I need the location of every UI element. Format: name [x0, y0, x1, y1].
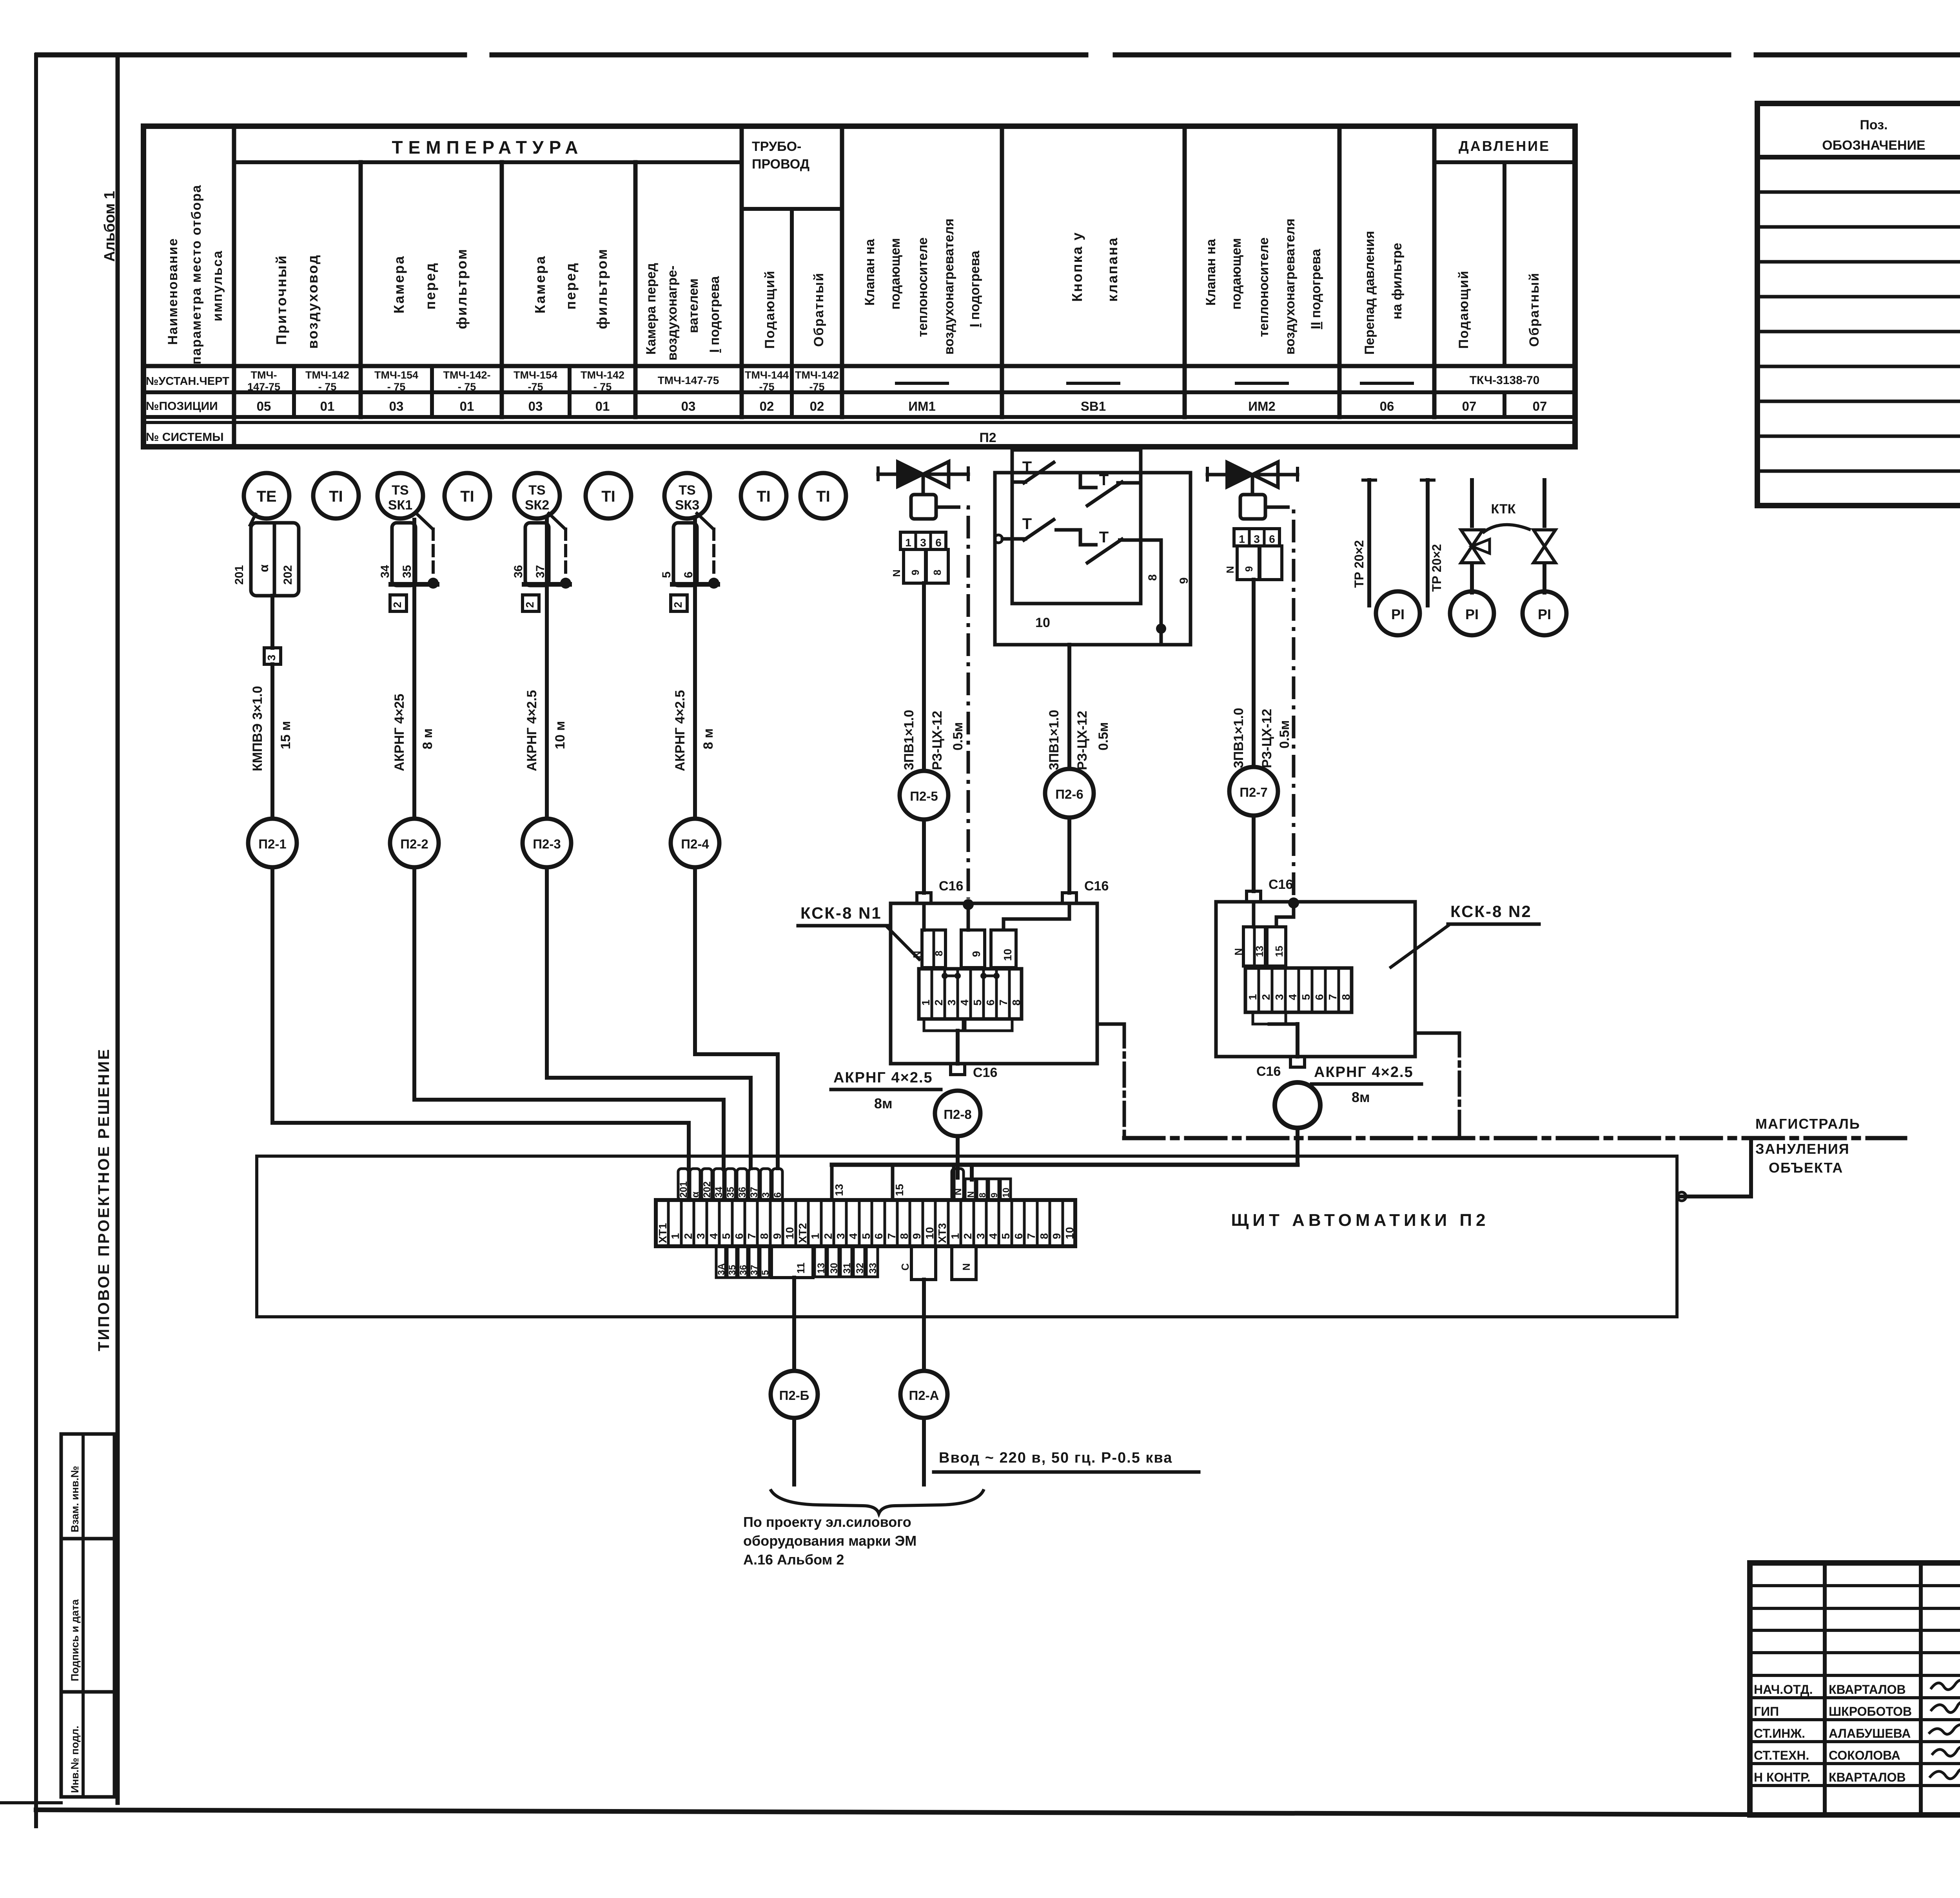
svg-text:3А: 3А: [716, 1263, 727, 1275]
measurement table column lines: [232, 126, 236, 447]
panel lower tag N: [952, 1246, 976, 1280]
junction box КСК-8 N2: [1216, 902, 1415, 1057]
valve pipe line: [1207, 473, 1298, 477]
svg-text:Клапан на: Клапан на: [862, 239, 877, 306]
svg-text:КМПВЭ 3×1.0: КМПВЭ 3×1.0: [250, 686, 265, 771]
svg-text:ТИПОВОЕ ПРОЕКТНОЕ РЕШЕНИЕ: ТИПОВОЕ ПРОЕКТНОЕ РЕШЕНИЕ: [95, 1048, 113, 1351]
svg-text:оборудования марки ЭМ: оборудования марки ЭМ: [743, 1533, 916, 1549]
svg-text:202: 202: [281, 565, 294, 585]
svg-text:ОБОЗНАЧЕНИЕ: ОБОЗНАЧЕНИЕ: [1822, 138, 1925, 153]
SB1 contact T2: [1054, 473, 1098, 488]
svg-text:Клапан на: Клапан на: [1203, 239, 1218, 306]
svg-text:По проекту эл.силового: По проекту эл.силового: [743, 1514, 911, 1530]
svg-text:3: 3: [1273, 994, 1285, 1000]
svg-text:9: 9: [1178, 577, 1191, 584]
П2-3 connection box: [525, 523, 549, 586]
КСК N2 output wire: [1296, 1024, 1299, 1057]
circle П2-Б: [771, 1371, 818, 1418]
svg-text:35: 35: [401, 565, 414, 578]
svg-text:НАЧ.ОТД.: НАЧ.ОТД.: [1754, 1682, 1813, 1697]
KTK valve left: [1461, 530, 1483, 546]
title block outer frame: [1750, 1563, 1960, 1815]
КСК-8 N1 leader line: [887, 926, 919, 959]
КСК N1 internal wires: [922, 903, 926, 930]
КСК N1 output wire: [956, 1031, 960, 1064]
left inner frame line: [116, 59, 120, 1803]
svg-text:П2-А: П2-А: [909, 1388, 939, 1403]
panel bus stub to N tag: [970, 1165, 974, 1180]
TE box lead: [250, 514, 256, 525]
svg-text:202: 202: [702, 1181, 713, 1198]
wire to П2-А: [922, 1280, 926, 1371]
wire П2-5 upper: [922, 583, 926, 771]
svg-text:36: 36: [738, 1265, 749, 1275]
svg-text:SК3: SК3: [675, 498, 699, 513]
svg-text:А.16 Альбом 2: А.16 Альбом 2: [743, 1552, 844, 1568]
КСК-8 N2 leader line: [1391, 926, 1448, 967]
svg-text:2: 2: [672, 602, 684, 608]
svg-text:2: 2: [822, 1233, 834, 1239]
terminal block 136 (ИМ1): [900, 532, 946, 549]
wire П2-6 lower: [1067, 818, 1071, 893]
svg-text:ТМЧ-147-75: ТМЧ-147-75: [658, 374, 719, 386]
capillary dashed line: [564, 529, 567, 572]
valve ИМ2 actuator box: [1240, 495, 1265, 519]
svg-text:АКРНГ 4×25: АКРНГ 4×25: [392, 694, 407, 771]
svg-text:С16: С16: [939, 879, 963, 894]
svg-text:-75: -75: [759, 381, 774, 393]
button box SB1 outer rect: [995, 473, 1191, 645]
svg-text:9: 9: [970, 951, 982, 957]
svg-text:Т: Т: [1099, 471, 1109, 489]
capillary dashed line: [432, 529, 435, 572]
svg-text:Наименование: Наименование: [165, 238, 180, 345]
svg-text:7: 7: [997, 999, 1009, 1006]
КСК N1 terminal strip: [919, 969, 1022, 1019]
svg-text:ТМЧ-142: ТМЧ-142: [581, 369, 624, 381]
wire П2-6 upper: [1067, 645, 1071, 769]
svg-text:SК1: SК1: [388, 498, 412, 513]
svg-text:Подающий: Подающий: [1456, 270, 1471, 349]
terminal block 136 (ИМ2): [1234, 529, 1279, 546]
svg-text:6: 6: [873, 1233, 885, 1239]
svg-text:Кнопка у: Кнопка у: [1069, 231, 1085, 302]
svg-text:6: 6: [772, 1192, 783, 1198]
svg-text:подающем: подающем: [888, 238, 903, 310]
svg-text:перед: перед: [422, 262, 438, 310]
svg-text:КСК-8 N2: КСК-8 N2: [1450, 902, 1532, 921]
svg-text:201: 201: [678, 1181, 689, 1198]
sub dividers for data rows: [292, 366, 296, 417]
svg-text:ТМЧ-144: ТМЧ-144: [745, 369, 789, 381]
SB1 row2 wire right: [1118, 540, 1161, 629]
wire to П2-Б: [792, 1278, 796, 1371]
svg-text:13: 13: [833, 1184, 845, 1196]
svg-text:1: 1: [920, 999, 932, 1006]
svg-text:4: 4: [987, 1233, 999, 1239]
svg-text:4: 4: [1287, 994, 1299, 1000]
svg-text:13: 13: [1254, 946, 1265, 957]
panel Щит автоматики П2 box: [257, 1156, 1677, 1317]
instrument circle ТS SК3: [664, 473, 710, 518]
capillary lead: [549, 513, 565, 529]
svg-text:АЛАБУШЕВА: АЛАБУШЕВА: [1829, 1726, 1911, 1740]
svg-text:7: 7: [886, 1233, 898, 1239]
svg-text:вателем: вателем: [686, 278, 701, 333]
junction dot: [708, 578, 719, 589]
svg-text:С16: С16: [1084, 879, 1109, 894]
svg-text:8: 8: [1038, 1233, 1050, 1239]
КСК N2 upper tags: [1243, 927, 1265, 966]
svg-text:П2-4: П2-4: [681, 837, 709, 851]
SB1 inner junction dot: [1156, 624, 1166, 634]
svg-text:Подающий: Подающий: [762, 270, 777, 349]
svg-text:15: 15: [893, 1184, 906, 1196]
svg-text:05: 05: [257, 399, 271, 413]
svg-text:06: 06: [1380, 399, 1394, 413]
valve ИМ2 stem: [1251, 475, 1254, 495]
measurement table outer frame: [143, 126, 1575, 447]
svg-text:9: 9: [1051, 1233, 1063, 1239]
instrument circle ТS SК2: [514, 473, 560, 518]
junction dot: [428, 578, 439, 589]
svg-text:1: 1: [809, 1233, 821, 1239]
svg-text:147-75: 147-75: [247, 381, 280, 393]
svg-text:03: 03: [681, 399, 696, 413]
svg-text:П2-Б: П2-Б: [779, 1388, 809, 1403]
svg-text:клапана: клапана: [1104, 237, 1120, 302]
wire to circle П2-2: [412, 595, 416, 819]
svg-text:П2-3: П2-3: [533, 837, 561, 851]
valve pipe line: [878, 473, 968, 476]
wire to gauge PI3: [1543, 565, 1546, 593]
KTK label and link: [1483, 525, 1531, 533]
svg-text:РЗ-ЦХ-12: РЗ-ЦХ-12: [930, 711, 945, 770]
circle П2-8: [935, 1091, 980, 1136]
svg-text:4: 4: [958, 999, 971, 1006]
svg-text:3: 3: [946, 999, 958, 1006]
valve body: [1227, 462, 1252, 487]
wire П2-1 to panel: [272, 1123, 689, 1170]
sheet top edge broken line: [37, 53, 465, 58]
SB1 inner wire bottom: [1160, 629, 1163, 645]
svg-text:10 м: 10 м: [553, 721, 568, 749]
gauge PI 3: [1523, 591, 1566, 635]
svg-text:N: N: [953, 1188, 964, 1195]
svg-text:Обратный: Обратный: [811, 272, 826, 347]
КСК N1 right branch wire: [1097, 1022, 1124, 1026]
tag 9 (XT3): [989, 1179, 999, 1200]
svg-text:Альбом 1: Альбом 1: [102, 191, 118, 262]
valve ИМ1 actuator box: [911, 495, 936, 519]
КСК N2 lower tags: [1253, 1012, 1286, 1024]
svg-text:33: 33: [867, 1263, 878, 1274]
svg-text:воздухонагревателя: воздухонагревателя: [1283, 219, 1298, 355]
svg-text:2: 2: [962, 1233, 974, 1239]
КСК N2 output gland: [1290, 1057, 1305, 1067]
button box SB1 inner rect: [1012, 450, 1141, 604]
circle П2-5: [900, 771, 948, 819]
wire П2-4 to panel: [695, 1054, 778, 1170]
conductor count tag 2: [523, 595, 539, 611]
capillary lead: [697, 513, 713, 529]
circle П2-6: [1045, 769, 1094, 818]
svg-text:9: 9: [771, 1233, 783, 1239]
svg-text:воздуховод: воздуховод: [305, 254, 321, 349]
svg-text:параметра место отбора: параметра место отбора: [189, 185, 204, 364]
svg-text:Камера перед: Камера перед: [644, 263, 659, 355]
svg-text:8м: 8м: [1352, 1089, 1370, 1105]
svg-text:5: 5: [720, 1233, 732, 1239]
КСК N1 upper tags: [922, 930, 946, 968]
svg-text:П2-8: П2-8: [944, 1107, 971, 1122]
svg-text:3ПВ1×1.0: 3ПВ1×1.0: [902, 710, 916, 770]
wire TE to tag: [270, 596, 274, 648]
circle П2-4: [671, 819, 719, 867]
svg-text:10: 10: [784, 1227, 796, 1239]
measurement table row line 2: [143, 390, 1575, 394]
tag 36 (XT1): [737, 1169, 747, 1200]
svg-text:8м: 8м: [874, 1095, 893, 1111]
svg-text:-75: -75: [809, 381, 824, 393]
signatures: [1931, 1680, 1960, 1690]
tag 8 (XT3): [977, 1179, 987, 1200]
cable gland П2-6: [1062, 893, 1076, 903]
svg-text:теплоносителе: теплоносителе: [915, 237, 930, 337]
svg-text:2: 2: [933, 999, 945, 1006]
svg-text:8: 8: [758, 1233, 770, 1239]
tag 201 (XT1): [678, 1169, 688, 1200]
panel lower tag cluster 1: [716, 1246, 726, 1278]
svg-text:4: 4: [847, 1233, 859, 1239]
svg-text:1: 1: [1247, 994, 1259, 1000]
svg-text:3: 3: [1254, 533, 1260, 545]
svg-text:теплоносителе: теплоносителе: [1256, 237, 1271, 337]
КСК N2 terminal strip: [1245, 968, 1352, 1012]
gauge PI 1: [1376, 591, 1420, 635]
svg-text:ТI: ТI: [757, 488, 771, 505]
svg-text:3: 3: [835, 1233, 847, 1239]
SB1 contact T4: [1054, 530, 1098, 545]
tag 202 (XT1): [702, 1169, 712, 1200]
circle П2-А: [900, 1371, 947, 1418]
svg-text:ЩИТ АВТОМАТИКИ П2: ЩИТ АВТОМАТИКИ П2: [1231, 1211, 1490, 1230]
tag α (XT1): [690, 1169, 700, 1200]
svg-text:7: 7: [746, 1233, 758, 1239]
wire П2-5 lower: [922, 819, 926, 893]
svg-text:10: 10: [1063, 1227, 1076, 1239]
svg-text:П2-6: П2-6: [1055, 787, 1083, 801]
svg-text:03: 03: [389, 399, 404, 413]
svg-text:ШКРОБОТОВ: ШКРОБОТОВ: [1829, 1704, 1912, 1719]
wire П2-3 sensor down: [545, 520, 549, 595]
svg-text:АКРНГ 4×2.5: АКРНГ 4×2.5: [833, 1070, 933, 1086]
valve ИМ2 dash-dot branch: [1267, 507, 1294, 897]
svg-text:10: 10: [1001, 1187, 1011, 1198]
pipe sub column divider: [790, 209, 794, 417]
svg-text:2: 2: [391, 602, 403, 608]
svg-text:ХТ1: ХТ1: [657, 1223, 669, 1243]
svg-text:6: 6: [1269, 533, 1275, 545]
wire П2-4 sensor down: [693, 520, 697, 595]
svg-text:ТS: ТS: [679, 483, 695, 498]
svg-text:МАГИСТРАЛЬ: МАГИСТРАЛЬ: [1755, 1116, 1860, 1132]
svg-text:воздухонагре-: воздухонагре-: [665, 266, 680, 361]
svg-text:ТЕМПЕРАТУРА: ТЕМПЕРАТУРА: [392, 137, 584, 158]
wire П2-7 lower: [1252, 816, 1256, 891]
svg-text:ТI: ТI: [601, 488, 615, 505]
svg-text:ТМЧ-142: ТМЧ-142: [795, 369, 839, 381]
svg-text:ИМ2: ИМ2: [1248, 399, 1276, 413]
circle П2-1: [248, 819, 297, 867]
wire П2-3 down: [545, 867, 549, 1078]
box bottom bar: [672, 582, 718, 587]
SB1 row1 wire right: [1124, 473, 1191, 483]
valve ИМ1 stem: [922, 474, 925, 495]
circle П2-7: [1229, 767, 1278, 816]
svg-text:36: 36: [512, 565, 525, 578]
pipe group header box Трубо-провод: [742, 207, 842, 211]
valve ИМ1 dash-dot branch: [938, 507, 968, 899]
svg-text:3: 3: [265, 654, 278, 661]
svg-text:АКРНГ 4×2.5: АКРНГ 4×2.5: [673, 690, 688, 771]
svg-text:0.5м: 0.5м: [1096, 722, 1111, 750]
КСК N1 junction dot (dash-dot entry): [963, 899, 974, 910]
svg-text:Обратный: Обратный: [1527, 272, 1542, 347]
svg-text:подающем: подающем: [1229, 238, 1244, 310]
svg-text:35: 35: [727, 1265, 738, 1275]
svg-text:1: 1: [669, 1233, 681, 1239]
svg-text:№ СИСТЕМЫ: № СИСТЕМЫ: [146, 431, 224, 444]
svg-text:5: 5: [971, 999, 984, 1006]
svg-text:ИМ1: ИМ1: [908, 399, 936, 413]
svg-text:5: 5: [1000, 1233, 1012, 1239]
svg-text:35: 35: [725, 1187, 736, 1198]
svg-text:3: 3: [975, 1233, 987, 1239]
conductor count tag 3: [264, 648, 281, 664]
wide tag box 15: [893, 1165, 954, 1200]
terminal lower cells (ИМ1): [904, 549, 926, 583]
svg-text:ДАВЛЕНИЕ: ДАВЛЕНИЕ: [1459, 138, 1550, 154]
svg-text:-75: -75: [528, 381, 543, 393]
svg-text:8: 8: [1340, 994, 1352, 1000]
svg-text:КВАРТАЛОВ: КВАРТАЛОВ: [1829, 1682, 1906, 1697]
svg-text:N: N: [1224, 566, 1236, 573]
svg-text:9: 9: [911, 1233, 923, 1239]
svg-text:1: 1: [905, 537, 911, 549]
svg-text:01: 01: [460, 399, 474, 413]
svg-text:Инв.№ подл.: Инв.№ подл.: [69, 1726, 81, 1793]
wire П2-Б down: [792, 1418, 796, 1485]
instrument circle ТI: [313, 473, 359, 518]
terminal strip XT main: [656, 1200, 1075, 1246]
tag N tall (XT3): [952, 1169, 964, 1200]
circle П2-3: [523, 819, 571, 867]
svg-text:СТ.ИНЖ.: СТ.ИНЖ.: [1754, 1726, 1805, 1740]
wire to circle П2-4: [693, 595, 697, 819]
svg-text:31: 31: [842, 1263, 853, 1274]
svg-text:Поз.: Поз.: [1860, 118, 1887, 132]
cable gland П2-5: [917, 893, 931, 903]
panel lower tag С: [911, 1246, 936, 1280]
KTK pipe right: [1543, 480, 1546, 526]
wire П2-8 to panel: [956, 1136, 960, 1178]
svg-text:Камера: Камера: [391, 255, 407, 314]
temperature group header box: [234, 160, 742, 164]
KTK pipe left: [1470, 480, 1474, 526]
svg-text:С16: С16: [1256, 1064, 1281, 1079]
cable gland П2-7: [1247, 891, 1261, 902]
КСК N1 lower tags: [924, 1019, 963, 1031]
TE connection box: [251, 523, 299, 596]
svg-text:КТК: КТК: [1491, 502, 1515, 517]
measurement table row line 3: [143, 415, 1575, 419]
svg-text:02: 02: [810, 399, 824, 413]
panel internal bus wire: [832, 1163, 1298, 1167]
svg-text:КСК-8 N1: КСК-8 N1: [800, 904, 882, 922]
tag 37 (XT1): [749, 1169, 759, 1200]
svg-text:С: С: [899, 1263, 911, 1271]
panel lower tag cluster 2: [815, 1246, 826, 1277]
svg-text:6: 6: [733, 1233, 745, 1239]
terminal lower cells (ИМ2): [1237, 546, 1259, 580]
КСК N2 internal wires: [1252, 902, 1256, 927]
box bottom bar: [391, 582, 437, 587]
svg-text:Т: Т: [1099, 529, 1109, 546]
svg-text:N: N: [965, 1191, 976, 1198]
svg-text:01: 01: [595, 399, 610, 413]
output circle (КСК N2): [1275, 1082, 1320, 1128]
parts table row lines: [1757, 190, 1960, 194]
wire to circle П2-3: [545, 595, 549, 819]
conductor count tag 2: [671, 595, 687, 611]
panel lower wide tag 11: [771, 1246, 813, 1278]
tag N (XT3): [965, 1179, 975, 1200]
parts table header row line: [1757, 155, 1960, 160]
svg-text:37: 37: [749, 1187, 760, 1198]
circle П2-2: [390, 819, 439, 867]
svg-text:8: 8: [898, 1233, 910, 1239]
svg-text:SВ1: SВ1: [1081, 399, 1106, 413]
gauge PI 2: [1450, 591, 1494, 635]
conductor count tag 2: [390, 595, 407, 611]
svg-text:ТМЧ-154: ТМЧ-154: [374, 369, 418, 381]
svg-text:N: N: [891, 569, 902, 577]
svg-text:13: 13: [816, 1263, 827, 1274]
svg-text:8: 8: [1010, 999, 1022, 1006]
КСК N2 right branch dash-dot down: [1458, 1033, 1461, 1138]
wire П2-2 to panel: [414, 1100, 724, 1170]
svg-text:ТМЧ-142-: ТМЧ-142-: [443, 369, 491, 381]
svg-text:6: 6: [1313, 994, 1325, 1000]
svg-text:30: 30: [829, 1263, 840, 1274]
svg-text:РЗ-ЦХ-12: РЗ-ЦХ-12: [1259, 709, 1274, 768]
instrument circle ТI: [800, 473, 846, 518]
KTK valve right: [1534, 530, 1555, 546]
svg-text:4: 4: [708, 1233, 720, 1239]
wide tag box 13: [832, 1165, 893, 1200]
svg-text:фильтром: фильтром: [594, 248, 610, 329]
junction dot: [560, 578, 571, 589]
svg-text:ТI: ТI: [816, 488, 830, 505]
svg-text:ЗАНУЛЕНИЯ: ЗАНУЛЕНИЯ: [1755, 1141, 1850, 1157]
svg-text:1: 1: [1239, 533, 1245, 545]
tag 35 (XT1): [725, 1169, 735, 1200]
svg-text:02: 02: [760, 399, 774, 413]
pressure impulse pipe 2: [1426, 480, 1430, 605]
svg-text:N: N: [960, 1263, 972, 1271]
svg-text:15: 15: [1273, 946, 1285, 957]
